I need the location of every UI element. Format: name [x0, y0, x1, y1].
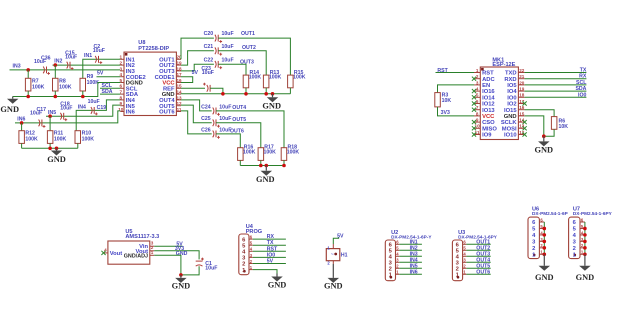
MK1 pin 22 TXD — [518, 72, 524, 74]
junction IN3/R7 — [26, 68, 30, 72]
svg-text:IN6: IN6 — [126, 110, 136, 116]
svg-text:IO10: IO10 — [504, 133, 517, 139]
svg-text:IN1: IN1 — [84, 53, 92, 59]
wire SDA — [525, 90, 587, 92]
wire gnd u5 — [154, 255, 181, 275]
wire C1 to gnd — [181, 266, 199, 275]
capacitor C21 10uF — [215, 47, 216, 54]
wire 5V to CODE2 — [97, 76, 121, 78]
wire U3 OUT2 — [466, 249, 490, 251]
svg-text:IN3: IN3 — [13, 64, 21, 70]
U8 pin 16 VCC — [176, 82, 181, 84]
wire IN6 — [15, 111, 120, 123]
svg-text:2: 2 — [242, 262, 245, 268]
junction U6 — [543, 227, 547, 231]
junction U6 — [543, 240, 547, 244]
resistor R10 100K — [75, 131, 81, 144]
wire U4 TX — [253, 244, 286, 246]
U8 pin 7 SDA — [120, 93, 124, 95]
svg-text:100K: 100K — [82, 137, 95, 143]
svg-text:Vout: Vout — [110, 251, 123, 257]
MK1 pin 18 IO0 — [518, 96, 524, 98]
wire SCL — [100, 87, 120, 89]
MK1 pin 2 ADC — [474, 78, 480, 80]
U8 pin 5 DGND — [120, 82, 124, 84]
wire EN to R3 — [438, 85, 475, 93]
svg-text:C24: C24 — [201, 104, 211, 110]
svg-text:10uF: 10uF — [222, 44, 234, 50]
MK1 pin 3 EN — [474, 84, 480, 86]
U5 pin 1 GND/ADJ — [150, 254, 154, 256]
wire U2 IN4 — [399, 261, 422, 263]
wire 3V3 to C1 — [154, 251, 199, 260]
ground GND mid-right — [272, 94, 274, 98]
svg-text:GND: GND — [504, 114, 517, 120]
wire U2 IN3 — [399, 255, 422, 257]
ground GND bottom-left — [56, 148, 58, 150]
U8 pin 6 SCL — [120, 87, 124, 89]
svg-text:OUT6: OUT6 — [476, 269, 490, 275]
junction gnd stem bottom — [265, 164, 269, 168]
U8 pin 8 IN4 — [120, 99, 124, 101]
svg-text:SCL: SCL — [576, 80, 587, 86]
junction IN6/R12 — [20, 121, 24, 125]
wire U3 OUT3 — [466, 255, 490, 257]
svg-text:EN: EN — [482, 83, 490, 89]
svg-text:MISO: MISO — [482, 126, 497, 132]
svg-text:GND: GND — [256, 175, 275, 184]
svg-text:IO0: IO0 — [267, 252, 275, 258]
MK1 pin 5 IO14 — [474, 96, 480, 98]
wire IN2 — [53, 64, 121, 66]
junction U7 — [583, 240, 587, 244]
svg-text:10uF: 10uF — [219, 116, 231, 122]
wire U6 tie — [543, 222, 545, 254]
svg-text:100K: 100K — [59, 84, 72, 90]
svg-text:100K: 100K — [264, 149, 277, 155]
svg-text:DX-PM2.54-1-6P: DX-PM2.54-1-6P — [532, 211, 568, 216]
junction gnd u5 — [179, 273, 183, 277]
wire U4 5V — [253, 263, 286, 265]
svg-text:2: 2 — [476, 74, 479, 79]
wire pin to C21 — [181, 51, 214, 65]
H1 top pin — [332, 244, 334, 249]
wire IN1 — [83, 59, 121, 78]
svg-text:GND: GND — [47, 155, 66, 164]
svg-text:IO4: IO4 — [507, 89, 517, 95]
svg-text:IN6: IN6 — [410, 269, 418, 275]
wire 5V u5 — [154, 245, 182, 247]
svg-text:~: ~ — [331, 251, 334, 256]
MK1 pin 19 IO4 — [518, 90, 524, 92]
wire IN3 — [10, 69, 121, 71]
header U2 DX-PM2.54-1-6P-Y body — [385, 240, 395, 281]
svg-text:6: 6 — [476, 99, 479, 104]
svg-text:3V3: 3V3 — [441, 110, 450, 116]
resistor R8 100K — [54, 65, 56, 78]
svg-text:100K: 100K — [25, 137, 38, 143]
wire U3 OUT5 — [466, 267, 490, 269]
svg-text:10uF: 10uF — [88, 99, 100, 105]
U8 pin 17 CODE1 — [176, 76, 181, 78]
wire GND rail bottom outputs — [240, 165, 284, 167]
svg-text:SDA: SDA — [575, 86, 586, 92]
svg-text:10uF: 10uF — [219, 104, 231, 110]
junction gnd esp — [542, 134, 546, 138]
junction C23 gnd — [221, 92, 225, 96]
svg-text:4: 4 — [476, 87, 479, 92]
svg-text:GND: GND — [324, 282, 343, 291]
svg-text:C26: C26 — [201, 127, 211, 133]
wire IN4 — [76, 100, 120, 131]
ground GND left — [12, 97, 14, 99]
wire OUT2 to R13 — [218, 51, 266, 75]
svg-text:5V: 5V — [192, 70, 199, 76]
capacitor C1 10uF — [196, 260, 203, 262]
capacitor C20 10uF — [215, 35, 216, 42]
svg-text:RST: RST — [267, 246, 278, 252]
svg-text:IN4: IN4 — [78, 104, 86, 110]
svg-text:2: 2 — [573, 246, 576, 252]
wire IO15 to R6 — [525, 110, 555, 117]
svg-text:TX: TX — [267, 240, 274, 246]
wire OUT1 to R15 — [218, 38, 290, 75]
U8 pin 14 GND — [176, 93, 181, 95]
svg-text:3: 3 — [476, 80, 479, 85]
MK1 pin 15 GND — [518, 115, 524, 117]
wire U4 RST — [253, 250, 286, 252]
svg-text:100K: 100K — [269, 75, 282, 81]
svg-text:10uF: 10uF — [202, 70, 214, 76]
svg-text:IO15: IO15 — [504, 108, 517, 114]
capacitor C18 10uF — [60, 113, 61, 120]
MK1 pin 12 IO10 — [518, 134, 524, 136]
svg-text:5V: 5V — [267, 259, 274, 265]
MK1 pin 17 IO2 — [518, 103, 524, 105]
wire 3V3 to VCC — [438, 107, 475, 116]
resistor R18 100K — [281, 148, 287, 161]
wire IO0 — [525, 96, 587, 98]
ground GND u4 — [276, 274, 278, 277]
wire pin to C22 — [181, 64, 214, 71]
svg-text:100K: 100K — [32, 84, 45, 90]
svg-text:10K: 10K — [559, 124, 569, 130]
junction R9 gnd — [81, 95, 85, 99]
U8 pin 2 IN2 — [120, 64, 124, 66]
junction gnd stem — [55, 147, 59, 151]
svg-text:GND: GND — [268, 280, 287, 289]
svg-text:100K: 100K — [249, 75, 262, 81]
svg-text:19: 19 — [519, 87, 525, 92]
U8 pin 18 OUT3 — [176, 70, 181, 72]
svg-text:IO12: IO12 — [482, 102, 495, 108]
ground GND h1 — [332, 264, 334, 278]
svg-text:21: 21 — [519, 74, 525, 79]
junction IN2/R8 — [54, 63, 58, 67]
capacitor C26 10uF — [213, 131, 214, 138]
U5 pin 3 Vin — [150, 245, 154, 247]
MK1 pin 4 IO16 — [474, 90, 480, 92]
resistor R11 100K — [49, 116, 51, 131]
junction R8 gnd — [54, 95, 58, 99]
svg-text:C19: C19 — [97, 105, 107, 111]
junction U6 — [543, 246, 547, 250]
resistor R6 10K — [551, 117, 557, 130]
svg-text:IO5: IO5 — [507, 83, 517, 89]
wire SCL — [525, 84, 587, 86]
wire H1 to 5V — [333, 237, 338, 244]
wire U2 IN1 — [399, 243, 422, 245]
wire U2 IN6 — [399, 273, 422, 275]
junction gnd stem right — [271, 92, 275, 96]
svg-text:10uF: 10uF — [60, 106, 72, 112]
svg-text:7: 7 — [476, 105, 479, 110]
svg-text:2: 2 — [532, 246, 535, 252]
U5 pin 2 Vout — [150, 250, 154, 252]
svg-text:OUT6: OUT6 — [159, 110, 175, 116]
MK1 pin 21 RXD — [518, 78, 524, 80]
resistor R14 100K — [243, 75, 249, 88]
capacitor C19 10uF — [91, 107, 92, 114]
U8 pin 19 OUT2 — [176, 64, 181, 66]
IC U8 PT2258-DIP body — [124, 52, 176, 115]
svg-text:GND/ADJ: GND/ADJ — [124, 254, 148, 260]
header U4 PROG body — [239, 234, 249, 275]
svg-text:8: 8 — [476, 111, 479, 116]
module MK1 ESP-12E body — [480, 67, 518, 140]
capacitor C24 10uF — [213, 108, 214, 115]
svg-text:C22: C22 — [204, 57, 214, 63]
svg-text:PROG: PROG — [246, 229, 262, 235]
wire RST — [436, 72, 475, 74]
svg-text:1: 1 — [476, 68, 479, 73]
svg-text:3: 3 — [120, 66, 123, 71]
wire U4 RX — [253, 238, 286, 240]
capacitor C22 10uF — [215, 61, 216, 68]
ground GND esp — [543, 136, 545, 141]
junction U7 — [583, 253, 587, 257]
svg-text:MOSI: MOSI — [502, 126, 517, 132]
svg-text:100K: 100K — [243, 149, 256, 155]
svg-text:TX: TX — [580, 68, 587, 74]
junction R17 gnd — [259, 164, 263, 168]
svg-text:10uF: 10uF — [30, 111, 42, 117]
H1 bottom pin — [332, 261, 334, 264]
svg-text:RXD: RXD — [504, 77, 516, 83]
resistor R7 100K — [27, 70, 29, 78]
svg-text:10uF: 10uF — [65, 55, 77, 61]
wire pin to C25 — [181, 105, 212, 123]
svg-text:OUT2: OUT2 — [242, 45, 256, 51]
MK1 pin 7 IO13 — [474, 109, 480, 111]
U8 pin 10 IN6 — [120, 111, 124, 113]
svg-text:AMS1117-3.3: AMS1117-3.3 — [125, 234, 159, 240]
ground GND U6 — [543, 254, 545, 265]
svg-text:TXD: TXD — [505, 71, 517, 77]
header U3 DX-PM2.54-1-6PY body — [452, 240, 462, 281]
wire pin to C26 — [181, 111, 212, 134]
svg-text:IO9: IO9 — [482, 133, 492, 139]
svg-text:C20: C20 — [204, 31, 214, 37]
junction U7 — [583, 233, 587, 237]
junction U6 — [543, 253, 547, 257]
MK1 pin 20 IO5 — [518, 84, 524, 86]
wire pin to C24 — [181, 100, 212, 111]
svg-text:IO13: IO13 — [482, 108, 495, 114]
svg-text:RST: RST — [482, 71, 494, 77]
svg-text:RX: RX — [267, 234, 275, 240]
svg-text:CSO: CSO — [482, 120, 495, 126]
junction R13 gnd — [264, 92, 268, 96]
svg-text:RX: RX — [579, 74, 587, 80]
MK1 pin 16 IO15 — [518, 109, 524, 111]
svg-text:10uF: 10uF — [222, 57, 234, 63]
svg-text:100K: 100K — [293, 75, 306, 81]
resistor R12 100K — [21, 123, 23, 131]
wire RX — [525, 78, 587, 80]
svg-text:SCLK: SCLK — [501, 120, 518, 126]
svg-text:15: 15 — [519, 111, 525, 116]
U8 pin 3 IN3 — [120, 70, 124, 72]
svg-text:OUT5: OUT5 — [232, 117, 246, 123]
svg-text:IO0: IO0 — [507, 95, 516, 101]
wire U3 OUT4 — [466, 261, 490, 263]
MK1 pin 1 RST — [474, 72, 480, 74]
svg-text:IO14: IO14 — [482, 95, 495, 101]
junction R7 gnd — [26, 95, 30, 99]
ground GND bottom outputs — [265, 166, 267, 171]
svg-text:OUT4: OUT4 — [232, 105, 246, 111]
U8 pin 20 OUT1 — [176, 58, 181, 60]
svg-text:10K: 10K — [442, 98, 452, 104]
MK1 pin 13 MOSI — [518, 127, 524, 129]
svg-text:ESP-12E: ESP-12E — [492, 62, 515, 68]
U8 pin 1 IN1 — [120, 58, 124, 60]
svg-text:10: 10 — [475, 124, 481, 129]
wire U4 pin1 to gnd — [253, 270, 277, 274]
svg-text:10uF: 10uF — [93, 48, 105, 54]
header U7 DX-PM2.54-1-6PY body — [569, 217, 580, 259]
wire GND bus bottom-left — [22, 147, 78, 149]
U8 pin 11 OUT6 — [176, 111, 181, 113]
wire OUT3 to R14 — [218, 64, 246, 75]
wire TX — [525, 72, 587, 74]
svg-text:GND: GND — [535, 273, 554, 282]
svg-text:10uF: 10uF — [34, 59, 46, 65]
junction U6 — [543, 233, 547, 237]
junction R14 gnd — [244, 92, 248, 96]
capacitor C23 10uF on REF — [181, 87, 205, 89]
svg-text:PT2258-DIP: PT2258-DIP — [138, 46, 169, 52]
wire SDA — [100, 93, 120, 95]
MK1 pin 11 IO9 — [474, 134, 480, 136]
U5 pin 4 Vout left — [104, 252, 108, 254]
svg-text:OUT1: OUT1 — [241, 31, 255, 37]
svg-text:5V: 5V — [337, 233, 344, 239]
wire U3 OUT1 — [466, 243, 490, 245]
junction IN5/R11 — [48, 114, 52, 118]
MK1 pin 6 IO12 — [474, 103, 480, 105]
capacitor C25 10uF — [213, 119, 214, 126]
wire U4 IO0 — [253, 256, 286, 258]
svg-text:ADC: ADC — [482, 77, 495, 83]
wire U2 IN5 — [399, 267, 422, 269]
svg-text:GND: GND — [576, 273, 595, 282]
resistor R9 100K — [80, 78, 86, 91]
wire U7 tie — [584, 222, 586, 254]
svg-text:18: 18 — [519, 93, 525, 98]
wire U2 IN2 — [399, 249, 422, 251]
svg-text:GND: GND — [262, 101, 281, 110]
resistor R3 10K — [435, 93, 441, 107]
capacitor C15 10uF — [67, 62, 68, 69]
U8 pin 15 REF — [176, 87, 181, 89]
header U6 DX-PM2.54-1-6P body — [528, 217, 539, 259]
wire U3 OUT6 — [466, 273, 490, 275]
MK1 pin 10 MISO — [474, 127, 480, 129]
U8 pin 9 IN5 — [120, 105, 124, 107]
svg-text:IO16: IO16 — [482, 89, 495, 95]
svg-text:DX-PM2.54-1-6PY: DX-PM2.54-1-6PY — [573, 211, 613, 216]
U8 pin 13 OUT4 — [176, 99, 181, 101]
svg-text:10uF: 10uF — [205, 265, 217, 271]
svg-text:5V: 5V — [97, 70, 104, 76]
svg-text:16: 16 — [519, 105, 525, 110]
wire IN5 — [46, 105, 120, 116]
MK1 pin 8 VCC — [474, 115, 480, 117]
svg-text:IO0: IO0 — [578, 92, 586, 98]
resistor R15 100K — [288, 75, 294, 88]
connector H1 body — [326, 249, 340, 261]
svg-text:1: 1 — [151, 250, 154, 255]
wire OUT5 to R17 — [216, 123, 261, 148]
svg-text:100K: 100K — [54, 137, 67, 143]
junction U7 — [583, 227, 587, 231]
wire GND bus top-left — [13, 83, 121, 97]
svg-text:100K: 100K — [287, 149, 300, 155]
svg-text:10uF: 10uF — [222, 31, 234, 37]
MK1 pin 9 CSO — [474, 121, 480, 123]
junction R18 gnd — [282, 164, 286, 168]
resistor R16 100K — [238, 148, 244, 161]
wire 5V CODE1-VCC loop — [181, 77, 193, 83]
svg-text:GND: GND — [172, 282, 191, 291]
svg-text:IO2: IO2 — [507, 102, 516, 108]
regulator U5 AMS1117-3.3 body — [108, 241, 150, 264]
capacitor C36 10uF — [43, 67, 44, 74]
wire pin to C20 — [181, 38, 214, 59]
ground GND u5 — [180, 275, 182, 278]
svg-text:20: 20 — [519, 80, 525, 85]
U8 pin 4 CODE2 — [120, 76, 124, 78]
svg-text:5: 5 — [476, 93, 479, 98]
ground GND U7 — [584, 254, 586, 265]
svg-text:C25: C25 — [201, 116, 211, 122]
capacitor C17 10uF — [39, 120, 40, 127]
junction U7 — [583, 246, 587, 250]
resistor R13 100K — [263, 75, 269, 88]
svg-text:GND: GND — [0, 105, 19, 114]
svg-text:GND: GND — [176, 251, 188, 257]
capacitor C2 10uF — [95, 56, 96, 63]
svg-text:GND: GND — [534, 145, 553, 154]
U8 pin 12 OUT5 — [176, 105, 181, 107]
wire GND rail right of U8 — [181, 93, 290, 95]
svg-text:22: 22 — [519, 68, 525, 73]
svg-text:H1: H1 — [341, 252, 348, 258]
wire OUT4 to R18 — [216, 111, 284, 148]
wire OUT6 to R16 — [216, 134, 240, 148]
